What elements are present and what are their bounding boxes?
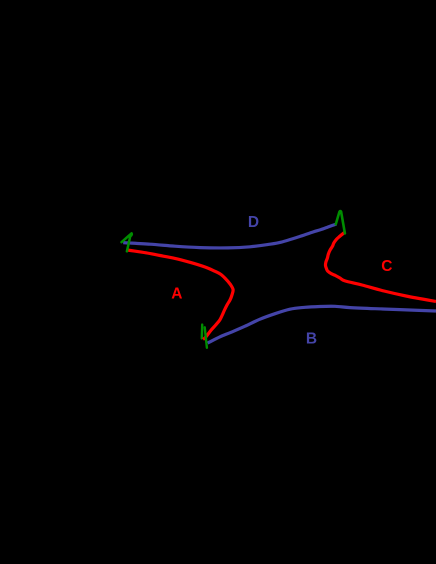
svg-text:A: A (171, 285, 182, 302)
svg-text:B: B (306, 331, 317, 348)
svg-text:C: C (381, 258, 392, 275)
svg-text:D: D (248, 214, 259, 231)
